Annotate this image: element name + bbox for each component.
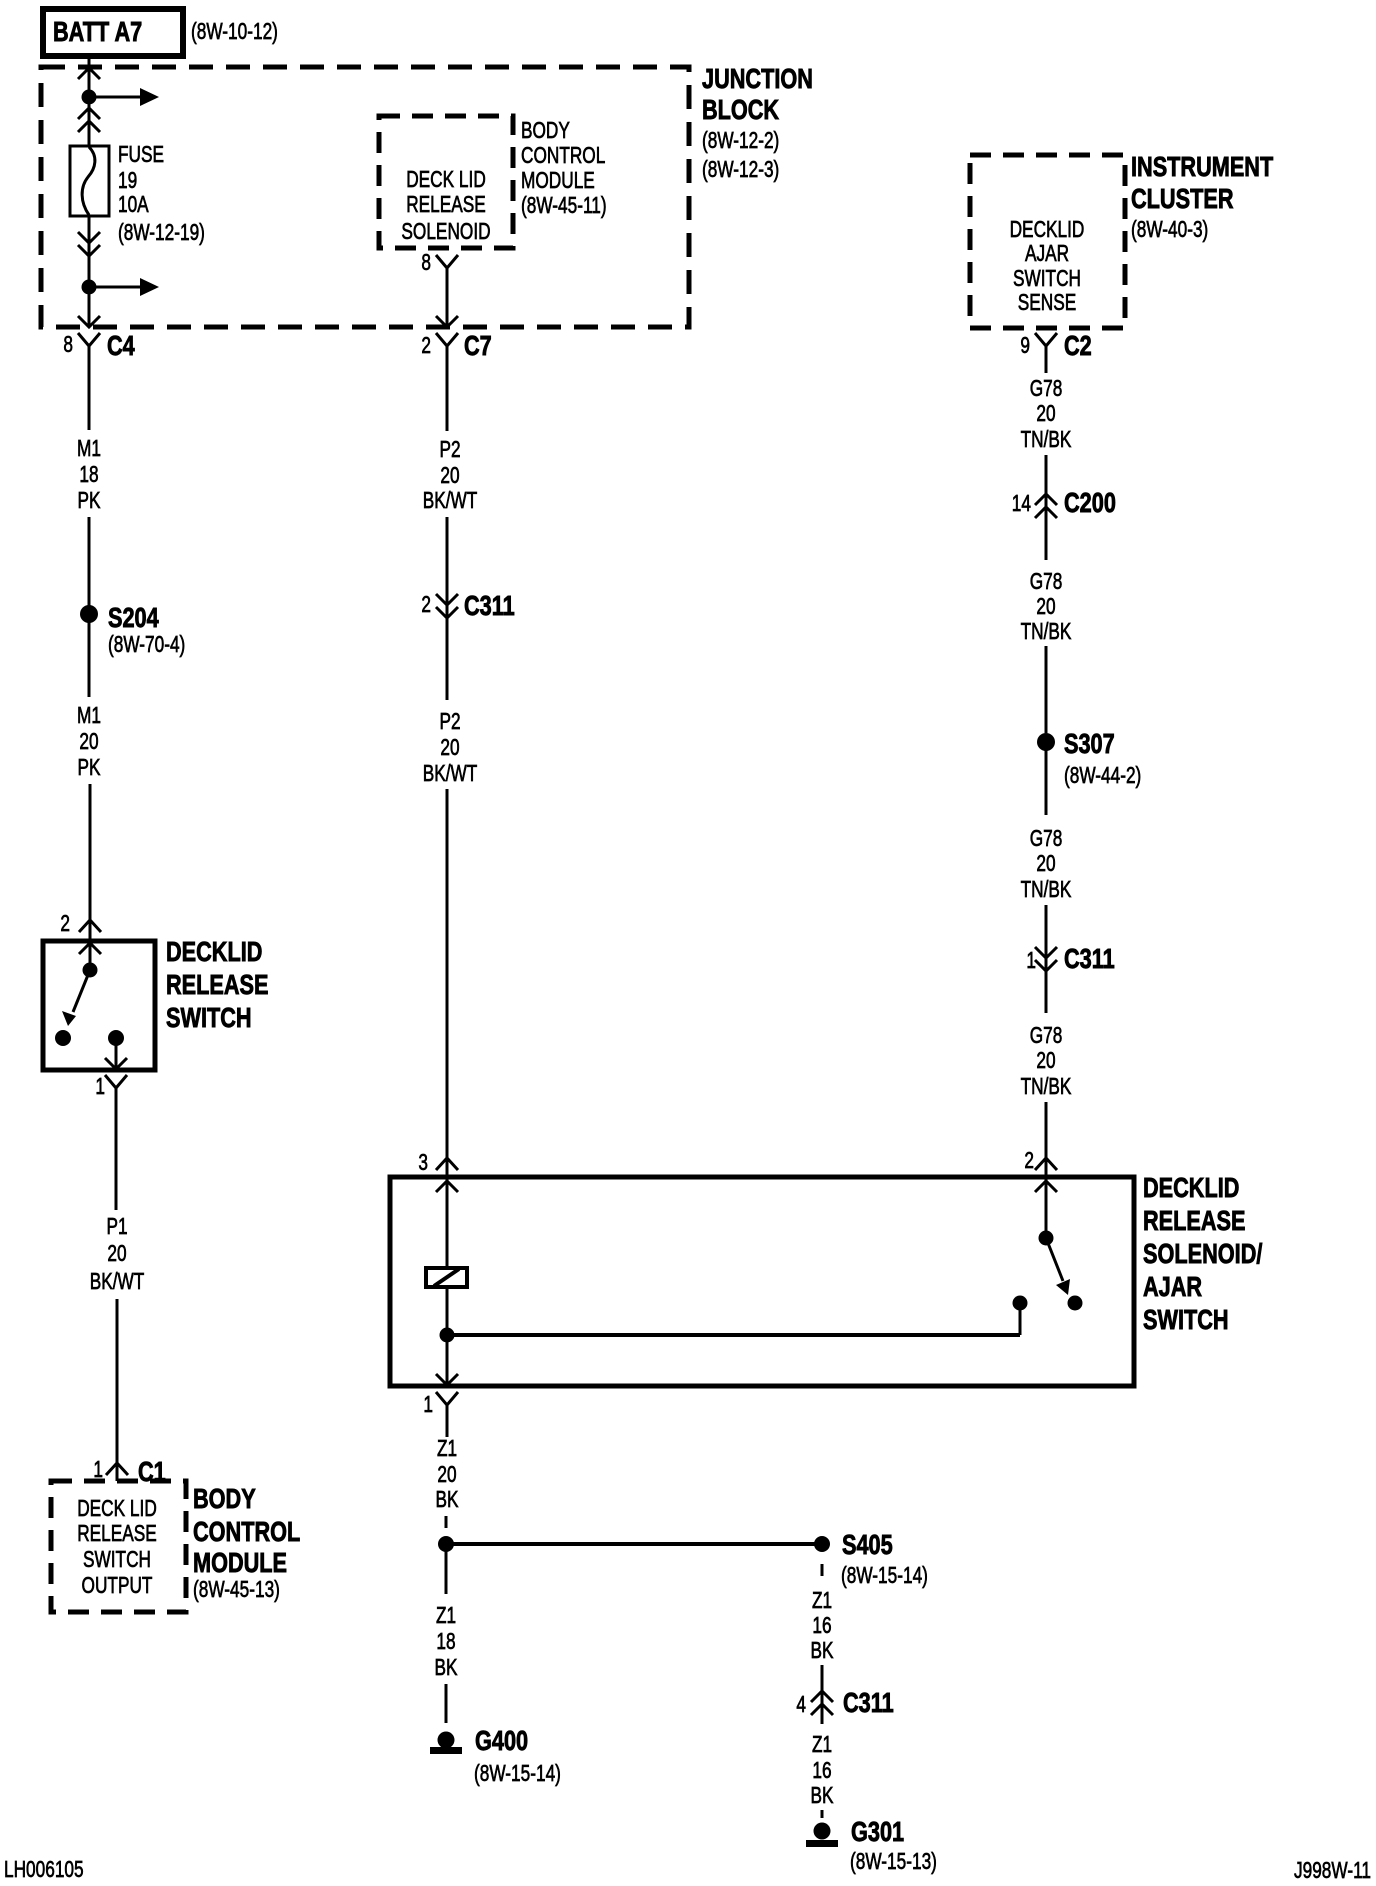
svg-text:16: 16	[812, 1757, 831, 1783]
svg-text:LH006105: LH006105	[4, 1856, 84, 1882]
svg-text:P1: P1	[106, 1213, 127, 1239]
switch contact left	[55, 1030, 71, 1046]
svg-text:C200: C200	[1064, 487, 1116, 518]
ground G301	[814, 1823, 831, 1840]
solenoid coil	[426, 1268, 467, 1287]
switch arm	[73, 970, 90, 1012]
connector C7 symbol	[436, 333, 458, 362]
svg-text:AJAR: AJAR	[1025, 240, 1069, 266]
svg-text:18: 18	[436, 1628, 455, 1654]
wire BATT feed	[88, 57, 91, 146]
arrow down at junction block edge	[436, 316, 458, 327]
svg-text:DECKLID: DECKLID	[166, 936, 262, 967]
svg-text:SWITCH: SWITCH	[1143, 1304, 1229, 1335]
svg-text:SWITCH: SWITCH	[83, 1546, 151, 1572]
svg-text:BK: BK	[436, 1486, 459, 1512]
svg-text:BLOCK: BLOCK	[702, 94, 779, 125]
svg-text:DECKLID: DECKLID	[1143, 1172, 1239, 1203]
splice node bottom	[438, 1536, 454, 1552]
svg-text:RELEASE: RELEASE	[166, 969, 269, 1000]
svg-text:14: 14	[1012, 490, 1031, 516]
svg-text:Z1: Z1	[812, 1587, 832, 1613]
wire to solenoid	[446, 1177, 449, 1268]
svg-text:8: 8	[421, 249, 431, 275]
svg-text:P2: P2	[439, 436, 460, 462]
connector C311 symbol (ground side)	[811, 1691, 833, 1715]
ground G400	[438, 1732, 455, 1749]
svg-text:1: 1	[95, 1073, 105, 1099]
connector symbol pin 1	[105, 1075, 127, 1103]
svg-text:BATT A7: BATT A7	[53, 16, 142, 47]
arrow up inside box left	[436, 1181, 458, 1192]
svg-text:BODY: BODY	[193, 1483, 256, 1514]
splice node (fuse feed)	[82, 90, 97, 105]
svg-text:FUSE: FUSE	[118, 141, 164, 167]
in-line connector chevrons (up)	[78, 108, 100, 132]
connector C1 symbol	[106, 1463, 128, 1475]
wire to pivot	[89, 941, 92, 970]
wire across to S405	[446, 1542, 822, 1546]
wire	[88, 517, 91, 697]
decklid release solenoid / ajar switch box	[390, 1177, 1134, 1386]
arrow down at junction block edge	[78, 316, 100, 327]
wire	[116, 1299, 119, 1481]
svg-text:TN/BK: TN/BK	[1021, 426, 1072, 452]
splice S204	[80, 605, 98, 623]
deck lid release solenoid dashed box (in junction block)	[379, 116, 513, 248]
svg-text:TN/BK: TN/BK	[1021, 1073, 1072, 1099]
svg-text:BK: BK	[811, 1637, 834, 1663]
svg-text:JUNCTION: JUNCTION	[702, 63, 813, 94]
svg-text:16: 16	[812, 1612, 831, 1638]
wire	[88, 362, 91, 430]
svg-text:SWITCH: SWITCH	[166, 1002, 252, 1033]
connector C311 symbol (cluster side)	[1035, 947, 1057, 971]
body control module dashed box (switch output)	[51, 1481, 186, 1612]
wire below solenoid	[446, 1287, 449, 1386]
svg-text:(8W-40-3): (8W-40-3)	[1131, 216, 1208, 242]
svg-text:G400: G400	[475, 1725, 528, 1756]
splice S307	[1037, 733, 1055, 751]
svg-text:SOLENOID: SOLENOID	[401, 218, 490, 244]
splice node lower	[82, 280, 97, 295]
connector symbol pin 1 (solenoid ground)	[436, 1392, 458, 1420]
svg-text:S204: S204	[108, 602, 159, 633]
svg-text:DECK LID: DECK LID	[77, 1495, 157, 1521]
connector symbol pin 3	[436, 1158, 458, 1170]
branch arrow right lower	[89, 286, 141, 289]
svg-text:9: 9	[1020, 332, 1030, 358]
in-line connector chevrons (down)	[78, 232, 100, 256]
svg-text:J998W-11: J998W-11	[1294, 1857, 1371, 1883]
switch contact right	[108, 1030, 124, 1046]
svg-text:(8W-12-3): (8W-12-3)	[702, 156, 779, 182]
svg-text:20: 20	[1036, 850, 1055, 876]
ajar switch fixed contact	[1013, 1296, 1028, 1311]
svg-text:2: 2	[1024, 1147, 1034, 1173]
arrow up inside switch box	[79, 943, 101, 954]
instrument cluster dashed box	[970, 155, 1125, 328]
svg-text:G78: G78	[1030, 1022, 1063, 1048]
wire	[1045, 362, 1048, 373]
svg-text:(8W-15-13): (8W-15-13)	[850, 1848, 937, 1874]
wire	[821, 1564, 824, 1576]
wire	[446, 283, 449, 327]
svg-text:(8W-45-11): (8W-45-11)	[521, 192, 607, 218]
svg-text:G301: G301	[851, 1816, 904, 1847]
svg-text:18: 18	[79, 461, 98, 487]
wire long drop	[446, 789, 449, 1177]
svg-text:OUTPUT: OUTPUT	[82, 1572, 153, 1598]
svg-text:G78: G78	[1030, 825, 1063, 851]
svg-text:(8W-44-2): (8W-44-2)	[1064, 762, 1141, 788]
svg-text:G78: G78	[1030, 568, 1063, 594]
svg-text:RELEASE: RELEASE	[1143, 1205, 1246, 1236]
wire to switch pivot	[1045, 1177, 1048, 1238]
svg-text:MODULE: MODULE	[521, 167, 595, 193]
svg-text:3: 3	[418, 1149, 428, 1175]
switch pivot contact	[83, 963, 98, 978]
svg-text:BK: BK	[811, 1782, 834, 1808]
ajar switch arm	[1046, 1238, 1063, 1281]
arrow down inside box bottom	[436, 1374, 458, 1385]
connector C311 symbol	[436, 594, 458, 618]
svg-text:19: 19	[118, 167, 137, 193]
svg-text:RELEASE: RELEASE	[77, 1520, 157, 1546]
wire	[1045, 1102, 1048, 1177]
svg-text:20: 20	[440, 734, 459, 760]
svg-text:M1: M1	[77, 702, 101, 728]
arrow up into BATT	[78, 68, 100, 79]
junction node	[440, 1328, 455, 1343]
svg-text:TN/BK: TN/BK	[1021, 876, 1072, 902]
svg-text:P2: P2	[439, 708, 460, 734]
svg-text:C2: C2	[1064, 330, 1092, 361]
decklid release switch box	[43, 941, 155, 1070]
connector C200 symbol	[1035, 494, 1057, 518]
svg-text:C311: C311	[843, 1687, 894, 1718]
svg-text:C311: C311	[1064, 943, 1115, 974]
svg-text:PK: PK	[78, 487, 101, 513]
svg-text:SOLENOID/: SOLENOID/	[1143, 1238, 1263, 1269]
svg-text:PK: PK	[78, 754, 101, 780]
svg-text:BODY: BODY	[521, 117, 570, 143]
svg-text:20: 20	[437, 1461, 456, 1487]
svg-text:S307: S307	[1064, 728, 1115, 759]
svg-text:Z1: Z1	[436, 1602, 456, 1628]
svg-text:(8W-70-4): (8W-70-4)	[108, 631, 185, 657]
junction block dashed box	[41, 67, 689, 327]
wire	[115, 1103, 118, 1210]
svg-text:(8W-10-12): (8W-10-12)	[191, 18, 278, 44]
connector C4 symbol	[78, 333, 100, 362]
svg-text:(8W-15-14): (8W-15-14)	[474, 1760, 561, 1786]
svg-text:4: 4	[796, 1691, 806, 1717]
svg-text:DECK LID: DECK LID	[406, 166, 486, 192]
wire down from contact	[115, 1038, 118, 1070]
svg-text:S405: S405	[842, 1529, 893, 1560]
wire	[1045, 905, 1048, 971]
connector symbol pin 8	[436, 255, 458, 283]
svg-text:INSTRUMENT: INSTRUMENT	[1131, 151, 1273, 182]
svg-text:BK/WT: BK/WT	[90, 1268, 145, 1294]
arrow down inside switch box	[105, 1058, 127, 1069]
wire	[1045, 971, 1048, 1013]
svg-text:(8W-12-19): (8W-12-19)	[118, 219, 205, 245]
svg-text:CONTROL: CONTROL	[521, 142, 605, 168]
wire	[1045, 455, 1048, 560]
svg-text:RELEASE: RELEASE	[406, 191, 486, 217]
branch arrow right	[89, 96, 141, 99]
wire	[446, 517, 449, 700]
svg-text:2: 2	[421, 591, 431, 617]
svg-text:20: 20	[107, 1240, 126, 1266]
wire	[89, 784, 92, 939]
svg-text:20: 20	[1036, 593, 1055, 619]
svg-text:(8W-12-2): (8W-12-2)	[702, 127, 779, 153]
wire	[446, 362, 449, 431]
svg-text:1: 1	[1026, 947, 1036, 973]
svg-text:2: 2	[60, 910, 70, 936]
svg-text:CONTROL: CONTROL	[193, 1516, 300, 1547]
svg-text:SWITCH: SWITCH	[1013, 265, 1081, 291]
wire below fuse	[88, 216, 91, 327]
svg-text:DECKLID: DECKLID	[1010, 216, 1085, 242]
wire	[445, 1544, 448, 1594]
svg-text:20: 20	[1036, 1047, 1055, 1073]
wire across to ajar switch	[447, 1333, 1020, 1337]
ajar switch moving contact	[1068, 1296, 1083, 1311]
svg-text:C311: C311	[464, 590, 515, 621]
svg-text:AJAR: AJAR	[1143, 1271, 1202, 1302]
connector symbol pin 2	[79, 920, 101, 932]
svg-text:(8W-45-13): (8W-45-13)	[193, 1576, 280, 1602]
svg-text:BK/WT: BK/WT	[423, 487, 478, 513]
connector symbol pin 2 (ajar switch)	[1035, 1158, 1057, 1170]
connector C2 symbol	[1035, 333, 1057, 362]
svg-text:MODULE: MODULE	[193, 1547, 287, 1578]
svg-text:8: 8	[63, 331, 73, 357]
svg-text:1: 1	[423, 1391, 433, 1417]
svg-text:20: 20	[440, 462, 459, 488]
arrow up inside box right	[1035, 1181, 1057, 1192]
svg-text:CLUSTER: CLUSTER	[1131, 183, 1234, 214]
svg-text:(8W-15-14): (8W-15-14)	[841, 1562, 928, 1588]
svg-text:C7: C7	[464, 330, 492, 361]
fuse 19 10A	[70, 146, 109, 216]
ajar switch pivot	[1039, 1231, 1054, 1246]
svg-text:BK: BK	[435, 1654, 458, 1680]
svg-text:20: 20	[1036, 400, 1055, 426]
svg-text:20: 20	[79, 728, 98, 754]
svg-text:2: 2	[421, 332, 431, 358]
svg-text:Z1: Z1	[812, 1731, 832, 1757]
wire	[446, 1420, 449, 1437]
svg-text:G78: G78	[1030, 375, 1063, 401]
svg-text:10A: 10A	[118, 191, 149, 217]
svg-text:M1: M1	[77, 435, 101, 461]
svg-text:SENSE: SENSE	[1018, 289, 1077, 315]
wire	[1045, 646, 1048, 733]
wire	[1045, 750, 1048, 815]
svg-text:BK/WT: BK/WT	[423, 760, 478, 786]
svg-text:C4: C4	[107, 330, 135, 361]
power source BATT A7 box	[43, 9, 183, 56]
svg-text:TN/BK: TN/BK	[1021, 618, 1072, 644]
splice S405	[814, 1536, 830, 1552]
svg-text:1: 1	[93, 1456, 103, 1482]
svg-text:Z1: Z1	[437, 1435, 457, 1461]
